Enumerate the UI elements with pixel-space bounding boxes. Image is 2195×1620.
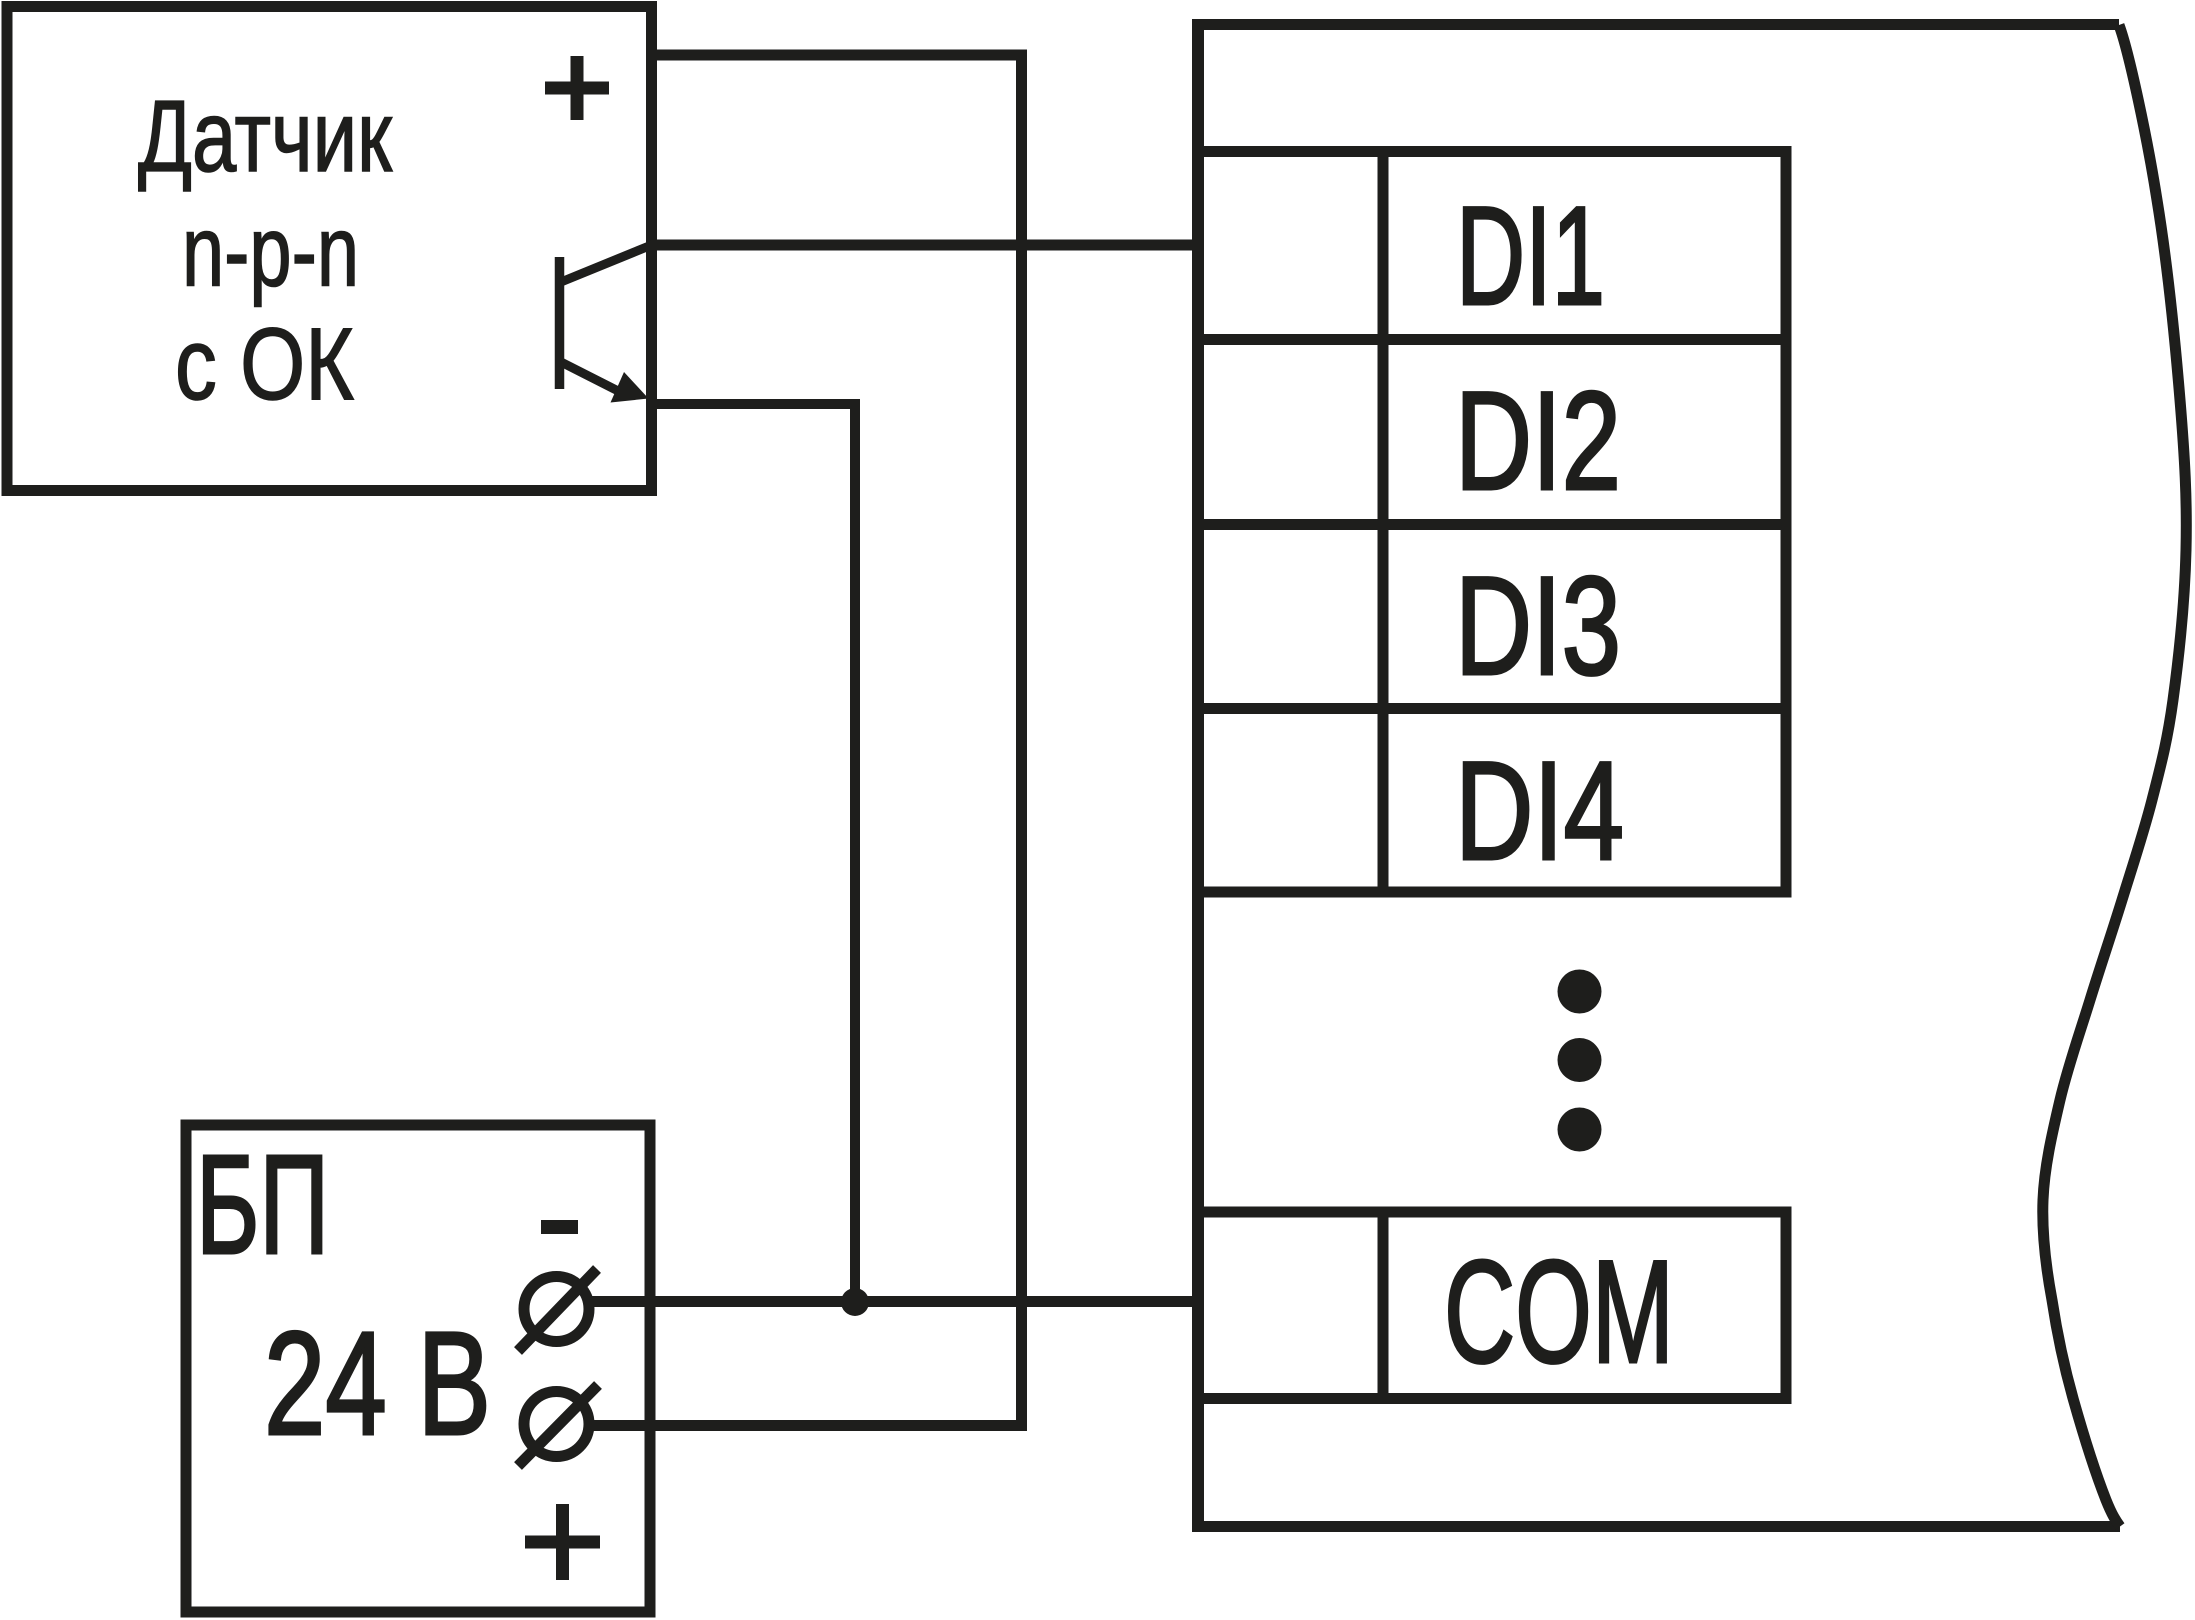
ellipsis dot 1	[1558, 970, 1602, 1014]
transistor Q1 emitter arrowhead	[611, 372, 649, 403]
DI table right edge	[1781, 146, 1792, 898]
ellipsis dot 3	[1558, 1108, 1602, 1152]
power supply box (БП 24 В)	[186, 1125, 650, 1612]
svg-text:n-p-n: n-p-n	[182, 196, 359, 308]
svg-text:с ОК: с ОК	[175, 307, 354, 421]
module outline left edge	[1192, 19, 1204, 1532]
wire: collector to DI1	[652, 240, 1199, 251]
module outline wavy right edge	[2043, 25, 2187, 1527]
COM row lines	[1193, 1207, 1792, 1405]
sensor box (Датчик n-p-n с ОК)	[7, 7, 652, 491]
transistor Q1 emitter lead	[561, 362, 628, 396]
transistor Q1 collector lead	[561, 244, 654, 282]
svg-text:DI2: DI2	[1455, 362, 1621, 519]
DI terminal table row lines	[1193, 152, 1792, 893]
module outline top edge	[1192, 19, 2119, 30]
wire: emitter down to COM junction	[652, 404, 856, 1302]
ellipsis dot 2	[1558, 1038, 1602, 1082]
svg-text:DI4: DI4	[1455, 732, 1624, 889]
plus terminal of sensor	[545, 56, 609, 120]
svg-text:Датчик: Датчик	[138, 81, 393, 193]
junction dot (node emitter/COM/-)	[841, 1288, 869, 1316]
svg-text:DI1: DI1	[1456, 177, 1605, 334]
wire: PSU minus to COM	[588, 1296, 1198, 1307]
DI table column divider	[1378, 152, 1389, 893]
module outline bottom edge	[1192, 1521, 2120, 1532]
transistor Q1 base bar	[555, 257, 565, 389]
PSU minus screw terminal	[518, 1269, 597, 1351]
svg-text:БП: БП	[196, 1125, 329, 1283]
svg-text:DI3: DI3	[1455, 547, 1621, 704]
wire: sensor + to PSU + (top wire, down right of module, to plus terminal)	[588, 55, 1022, 1426]
PSU plus screw terminal	[518, 1385, 598, 1466]
svg-text:24 В: 24 В	[264, 1302, 491, 1466]
svg-text:COM: COM	[1444, 1230, 1674, 1393]
label '-' (PSU minus)	[541, 1220, 578, 1234]
label '+' (PSU plus)	[525, 1504, 600, 1580]
